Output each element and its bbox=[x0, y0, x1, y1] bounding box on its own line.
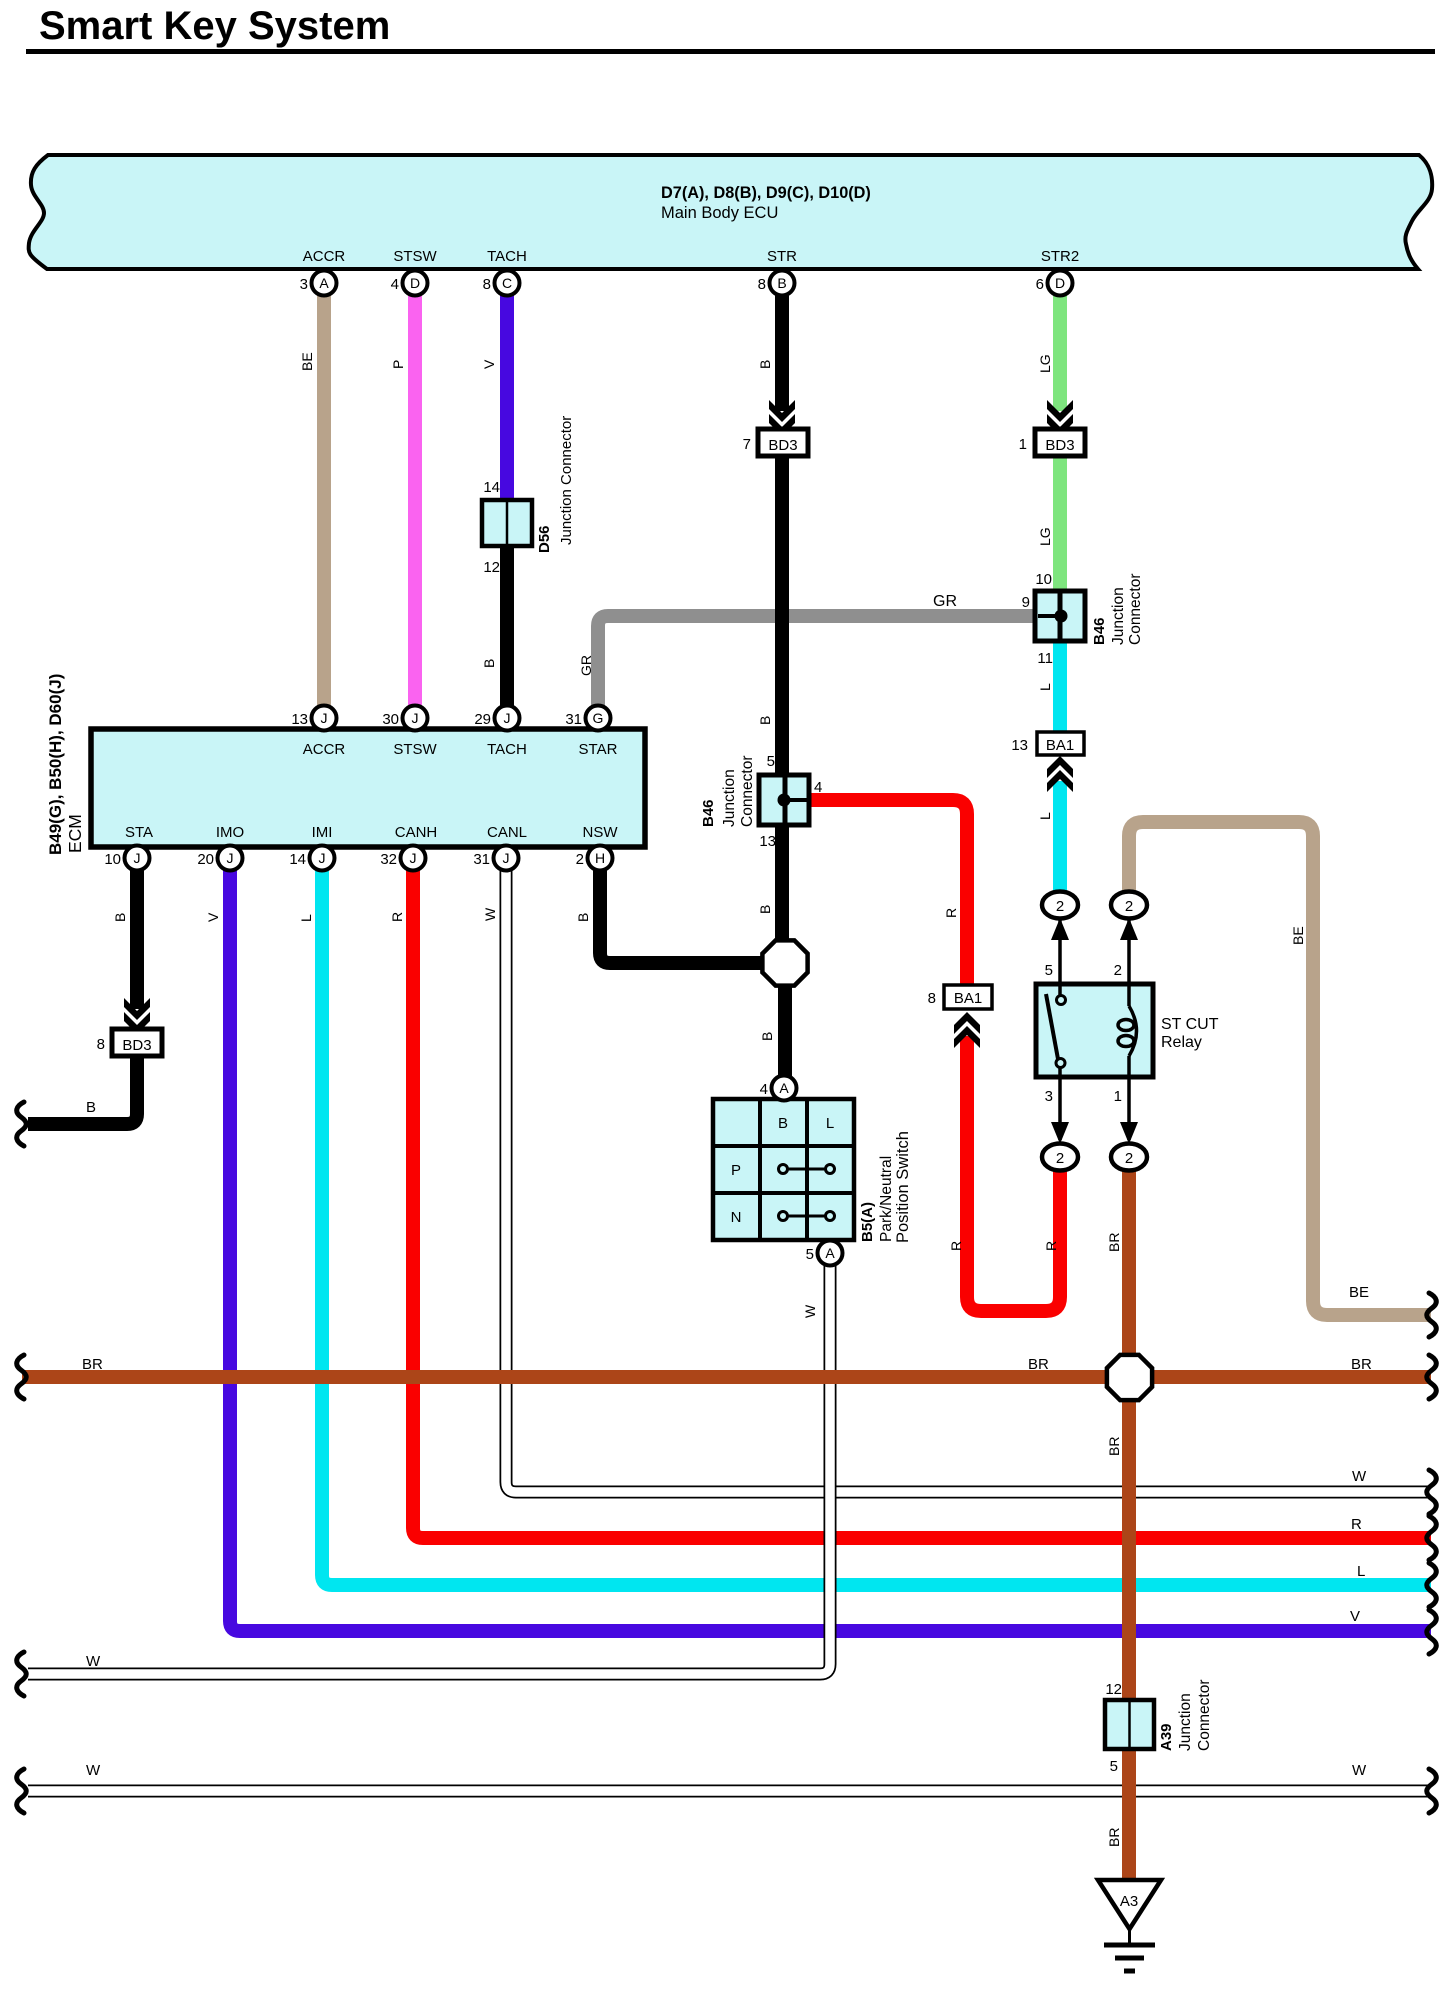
svg-text:J: J bbox=[504, 710, 511, 726]
svg-text:A39: A39 bbox=[1158, 1723, 1175, 1751]
svg-text:Connector: Connector bbox=[1127, 573, 1144, 645]
svg-text:IMO: IMO bbox=[216, 824, 244, 841]
svg-text:NSW: NSW bbox=[583, 824, 619, 841]
svg-text:CANL: CANL bbox=[487, 824, 527, 841]
svg-text:L: L bbox=[826, 1115, 834, 1132]
svg-text:13: 13 bbox=[759, 833, 776, 850]
svg-text:BE: BE bbox=[1290, 926, 1306, 945]
svg-text:Junction: Junction bbox=[721, 769, 738, 827]
svg-text:R: R bbox=[1043, 1241, 1059, 1251]
svg-text:1: 1 bbox=[1114, 1088, 1122, 1105]
svg-text:3: 3 bbox=[1045, 1088, 1053, 1105]
svg-text:W: W bbox=[86, 1762, 101, 1779]
svg-text:B: B bbox=[778, 1115, 788, 1132]
svg-text:2: 2 bbox=[1056, 1150, 1064, 1167]
svg-text:Relay: Relay bbox=[1161, 1034, 1202, 1051]
svg-text:B: B bbox=[481, 659, 497, 668]
svg-text:W: W bbox=[802, 1304, 818, 1318]
svg-text:L: L bbox=[1357, 1563, 1365, 1580]
svg-text:B: B bbox=[757, 905, 773, 914]
svg-text:B: B bbox=[759, 1032, 775, 1041]
svg-text:B: B bbox=[575, 913, 591, 922]
svg-text:BD3: BD3 bbox=[122, 1037, 151, 1054]
svg-text:BR: BR bbox=[1106, 1233, 1122, 1252]
svg-text:STSW: STSW bbox=[393, 741, 437, 758]
svg-text:13: 13 bbox=[291, 711, 308, 728]
svg-text:Smart Key System: Smart Key System bbox=[39, 4, 390, 48]
svg-text:Junction: Junction bbox=[1177, 1693, 1194, 1751]
svg-text:5: 5 bbox=[767, 753, 775, 770]
svg-text:J: J bbox=[503, 850, 510, 866]
svg-text:B: B bbox=[757, 360, 773, 369]
svg-text:W: W bbox=[1352, 1468, 1367, 1485]
svg-text:BD3: BD3 bbox=[1045, 437, 1074, 454]
svg-text:D7(A), D8(B), D9(C), D10(D): D7(A), D8(B), D9(C), D10(D) bbox=[661, 184, 871, 202]
svg-text:GR: GR bbox=[933, 593, 957, 610]
svg-text:3: 3 bbox=[300, 276, 308, 293]
svg-text:CANH: CANH bbox=[395, 824, 438, 841]
svg-text:LG: LG bbox=[1037, 527, 1053, 546]
svg-text:ACCR: ACCR bbox=[303, 741, 346, 758]
svg-text:8: 8 bbox=[928, 990, 936, 1007]
svg-text:G: G bbox=[593, 710, 604, 726]
svg-text:J: J bbox=[319, 850, 326, 866]
svg-text:Junction Connector: Junction Connector bbox=[558, 416, 575, 545]
svg-text:Position Switch: Position Switch bbox=[894, 1131, 912, 1243]
svg-text:BD3: BD3 bbox=[768, 437, 797, 454]
svg-text:J: J bbox=[412, 710, 419, 726]
svg-text:29: 29 bbox=[474, 711, 491, 728]
svg-text:30: 30 bbox=[382, 711, 399, 728]
svg-text:H: H bbox=[595, 850, 605, 866]
svg-text:W: W bbox=[86, 1653, 101, 1670]
svg-text:J: J bbox=[410, 850, 417, 866]
svg-text:9: 9 bbox=[1022, 594, 1030, 611]
svg-text:2: 2 bbox=[1125, 898, 1133, 915]
svg-text:STAR: STAR bbox=[579, 741, 618, 758]
svg-text:P: P bbox=[731, 1162, 741, 1179]
svg-text:2: 2 bbox=[1114, 962, 1122, 979]
svg-text:STR2: STR2 bbox=[1041, 248, 1079, 265]
svg-text:BE: BE bbox=[1349, 1284, 1369, 1301]
svg-text:32: 32 bbox=[380, 851, 397, 868]
svg-text:BR: BR bbox=[1351, 1356, 1372, 1373]
svg-text:20: 20 bbox=[197, 851, 214, 868]
svg-text:B46: B46 bbox=[1091, 617, 1108, 645]
svg-text:IMI: IMI bbox=[312, 824, 333, 841]
svg-text:R: R bbox=[943, 908, 959, 918]
svg-text:B46: B46 bbox=[700, 799, 717, 827]
svg-text:BA1: BA1 bbox=[954, 990, 982, 1007]
svg-text:L: L bbox=[1037, 683, 1053, 691]
svg-text:Connector: Connector bbox=[739, 755, 756, 827]
svg-text:A3: A3 bbox=[1120, 1893, 1138, 1910]
svg-text:B: B bbox=[112, 913, 128, 922]
svg-text:J: J bbox=[134, 850, 141, 866]
svg-text:Connector: Connector bbox=[1196, 1679, 1213, 1751]
svg-text:D56: D56 bbox=[536, 525, 553, 553]
svg-text:STA: STA bbox=[125, 824, 153, 841]
svg-text:LG: LG bbox=[1037, 354, 1053, 373]
svg-text:Junction: Junction bbox=[1110, 587, 1127, 645]
svg-text:B5(A): B5(A) bbox=[859, 1202, 876, 1242]
svg-text:A: A bbox=[779, 1080, 789, 1096]
svg-text:GR: GR bbox=[578, 655, 594, 676]
svg-text:4: 4 bbox=[814, 779, 822, 796]
svg-text:5: 5 bbox=[1045, 962, 1053, 979]
svg-text:12: 12 bbox=[483, 559, 500, 576]
svg-text:5: 5 bbox=[1110, 1758, 1118, 1775]
svg-text:Main Body ECU: Main Body ECU bbox=[661, 204, 778, 222]
svg-text:V: V bbox=[205, 912, 221, 922]
svg-text:14: 14 bbox=[289, 851, 306, 868]
svg-text:5: 5 bbox=[806, 1246, 814, 1263]
svg-text:B: B bbox=[757, 716, 773, 725]
svg-text:1: 1 bbox=[1019, 436, 1027, 453]
svg-text:10: 10 bbox=[104, 851, 121, 868]
svg-text:ST CUT: ST CUT bbox=[1161, 1016, 1219, 1033]
svg-text:12: 12 bbox=[1105, 1681, 1122, 1698]
svg-text:L: L bbox=[1037, 812, 1053, 820]
svg-text:4: 4 bbox=[391, 276, 399, 293]
svg-text:4: 4 bbox=[760, 1081, 768, 1098]
svg-text:BR: BR bbox=[1106, 1828, 1122, 1847]
svg-text:N: N bbox=[731, 1209, 742, 1226]
svg-text:BR: BR bbox=[1028, 1356, 1049, 1373]
svg-text:31: 31 bbox=[473, 851, 490, 868]
svg-text:14: 14 bbox=[483, 479, 500, 496]
svg-text:J: J bbox=[321, 710, 328, 726]
svg-text:TACH: TACH bbox=[487, 248, 527, 265]
svg-text:Park/Neutral: Park/Neutral bbox=[878, 1156, 895, 1242]
svg-text:R: R bbox=[948, 1241, 964, 1251]
svg-text:31: 31 bbox=[565, 711, 582, 728]
svg-text:13: 13 bbox=[1011, 737, 1028, 754]
svg-text:8: 8 bbox=[758, 276, 766, 293]
svg-text:STSW: STSW bbox=[393, 248, 437, 265]
svg-text:BA1: BA1 bbox=[1046, 737, 1074, 754]
svg-text:7: 7 bbox=[743, 436, 751, 453]
svg-text:A: A bbox=[319, 275, 329, 291]
svg-text:P: P bbox=[390, 360, 406, 369]
svg-text:BR: BR bbox=[82, 1356, 103, 1373]
svg-text:R: R bbox=[389, 912, 405, 922]
svg-text:BR: BR bbox=[1106, 1437, 1122, 1456]
svg-text:R: R bbox=[1351, 1516, 1362, 1533]
svg-text:TACH: TACH bbox=[487, 741, 527, 758]
svg-text:C: C bbox=[502, 275, 512, 291]
svg-text:ACCR: ACCR bbox=[303, 248, 346, 265]
svg-text:BE: BE bbox=[299, 352, 315, 371]
svg-text:L: L bbox=[298, 914, 314, 922]
svg-text:D: D bbox=[410, 275, 420, 291]
svg-text:B49(G), B50(H), D60(J): B49(G), B50(H), D60(J) bbox=[46, 674, 65, 855]
svg-text:W: W bbox=[1352, 1762, 1367, 1779]
svg-text:B: B bbox=[777, 275, 786, 291]
svg-text:2: 2 bbox=[1056, 898, 1064, 915]
svg-text:V: V bbox=[1350, 1608, 1360, 1625]
svg-text:ECM: ECM bbox=[65, 814, 85, 853]
svg-text:B: B bbox=[86, 1099, 96, 1116]
svg-text:2: 2 bbox=[576, 851, 584, 868]
svg-text:10: 10 bbox=[1035, 571, 1052, 588]
svg-text:A: A bbox=[825, 1245, 835, 1261]
svg-text:6: 6 bbox=[1036, 276, 1044, 293]
svg-text:W: W bbox=[482, 907, 498, 921]
svg-text:11: 11 bbox=[1037, 650, 1053, 667]
svg-text:J: J bbox=[227, 850, 234, 866]
svg-text:8: 8 bbox=[97, 1036, 105, 1053]
svg-text:8: 8 bbox=[483, 276, 491, 293]
svg-text:V: V bbox=[481, 359, 497, 369]
svg-text:D: D bbox=[1055, 275, 1065, 291]
svg-text:STR: STR bbox=[767, 248, 797, 265]
svg-text:2: 2 bbox=[1125, 1150, 1133, 1167]
